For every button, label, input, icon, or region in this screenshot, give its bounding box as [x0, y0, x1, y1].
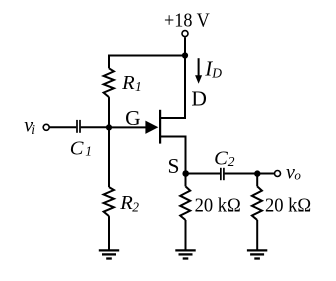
svg-text:R: R — [121, 72, 135, 94]
svg-text:20 kΩ: 20 kΩ — [195, 194, 241, 216]
svg-text:2: 2 — [228, 154, 235, 169]
svg-text:D: D — [191, 86, 207, 110]
svg-text:1: 1 — [135, 79, 142, 94]
svg-text:+18 V: +18 V — [164, 10, 210, 32]
svg-text:o: o — [294, 167, 301, 182]
svg-text:G: G — [125, 106, 141, 130]
svg-text:S: S — [168, 154, 180, 178]
svg-text:20 kΩ: 20 kΩ — [265, 194, 311, 216]
svg-text:D: D — [211, 65, 222, 80]
svg-text:R: R — [119, 192, 133, 214]
svg-text:2: 2 — [132, 199, 139, 214]
svg-text:i: i — [31, 122, 35, 137]
svg-text:C: C — [70, 137, 84, 159]
svg-text:C: C — [214, 147, 228, 169]
svg-text:1: 1 — [85, 143, 92, 158]
